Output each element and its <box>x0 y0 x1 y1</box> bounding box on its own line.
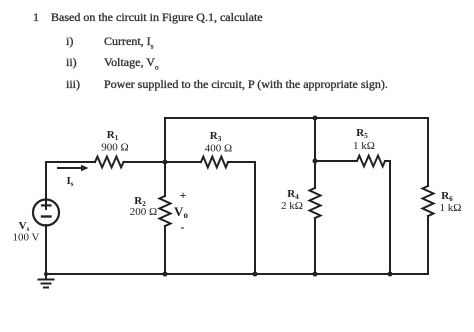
svg-text:2 kΩ: 2 kΩ <box>281 200 303 212</box>
ground bar 2 <box>42 283 51 285</box>
junction node R4 top rail <box>313 116 318 121</box>
wire R5 to drop <box>385 160 390 162</box>
current arrow Is <box>58 167 83 169</box>
svg-text:1 kΩ: 1 kΩ <box>440 202 462 214</box>
wire junction to R3 <box>165 161 201 163</box>
wire source top lead <box>46 162 95 200</box>
svg-text:Vo: Vo <box>174 204 188 220</box>
wire R4 branch top <box>314 118 316 188</box>
voltage source plus sign <box>42 204 51 206</box>
resistor R3 zigzag <box>201 157 228 168</box>
item i <box>66 34 73 49</box>
junction node source bottom <box>44 272 48 276</box>
junction node R4/R5 <box>313 159 318 164</box>
voltage source minus sign <box>42 215 51 217</box>
svg-text:200 Ω: 200 Ω <box>130 206 157 218</box>
wire R6 branch top <box>427 118 429 186</box>
resistor R4 zigzag <box>310 188 321 218</box>
resistor R5 zigzag <box>357 156 385 167</box>
ground stub <box>45 274 47 280</box>
item iii <box>66 77 80 92</box>
resistor R6 zigzag <box>423 186 434 216</box>
wire top rail <box>165 117 428 119</box>
ground bar 3 <box>44 287 48 289</box>
wire R3 to drop <box>228 161 255 163</box>
svg-text:Is: Is <box>66 175 73 188</box>
svg-text:+: + <box>180 188 187 202</box>
wire R6 to bottom rail <box>427 216 429 274</box>
resistor R2 zigzag <box>160 196 171 226</box>
wire R4 to bottom rail <box>314 218 316 274</box>
resistor R1 zigzag <box>95 157 124 168</box>
ground bar 1 <box>39 279 54 281</box>
wire junction to R2 <box>164 162 166 196</box>
svg-text:R1: R1 <box>107 129 119 142</box>
current arrow Is head <box>81 165 89 171</box>
svg-text:400 Ω: 400 Ω <box>205 143 232 155</box>
wire junction node to top rail <box>164 118 166 162</box>
junction node R5 drop bottom <box>388 272 393 277</box>
svg-text:-: - <box>181 220 185 234</box>
voltage source plus vertical <box>45 201 47 209</box>
junction node R4 bottom <box>313 272 318 277</box>
junction node at R1/R2/R3 <box>163 160 168 165</box>
problem statement line 1 <box>33 10 39 25</box>
wire bottom rail <box>46 273 428 275</box>
item ii <box>66 55 77 70</box>
svg-text:R5: R5 <box>356 127 368 140</box>
wire R1 to junction <box>124 161 166 163</box>
junction node R3 drop bottom <box>253 272 258 277</box>
junction node R2 bottom <box>163 272 168 277</box>
wire R5 drop to bottom rail <box>389 161 391 274</box>
svg-text:R3: R3 <box>210 130 222 143</box>
wire drop to bottom rail <box>254 162 256 274</box>
svg-text:100 V: 100 V <box>13 232 40 244</box>
svg-text:1 kΩ: 1 kΩ <box>353 140 375 152</box>
wire R5 branch left <box>315 160 357 162</box>
wire R2 to bottom rail <box>164 226 166 274</box>
svg-text:900 Ω: 900 Ω <box>101 142 128 154</box>
voltage source Vs circle <box>33 200 59 226</box>
wire source bottom lead <box>45 225 47 274</box>
